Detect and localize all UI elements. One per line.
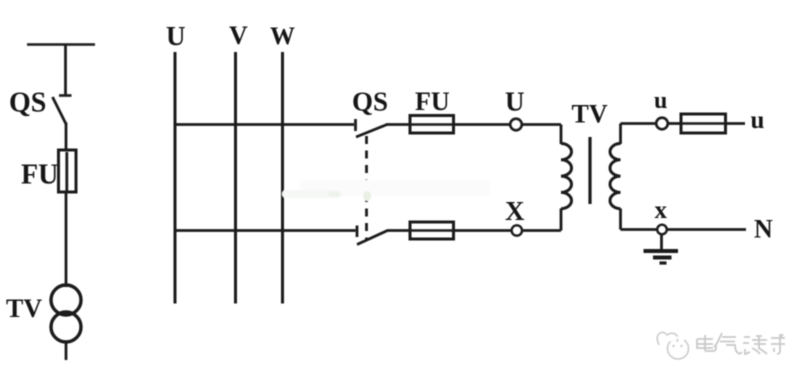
- svg-text:FU: FU: [415, 87, 450, 116]
- svg-text:TV: TV: [572, 100, 608, 129]
- svg-text:TV: TV: [6, 294, 42, 323]
- svg-text:u: u: [751, 107, 765, 134]
- svg-text:U: U: [166, 21, 186, 51]
- svg-text:QS: QS: [9, 88, 46, 119]
- svg-text:X: X: [505, 196, 525, 226]
- svg-text:u: u: [654, 88, 667, 114]
- svg-text:N: N: [754, 215, 773, 244]
- svg-text:x: x: [655, 197, 668, 224]
- svg-text:U: U: [505, 87, 525, 117]
- svg-text:FU: FU: [21, 160, 58, 191]
- svg-text:W: W: [270, 23, 295, 50]
- svg-text:V: V: [229, 21, 248, 50]
- svg-text:QS: QS: [352, 87, 388, 117]
